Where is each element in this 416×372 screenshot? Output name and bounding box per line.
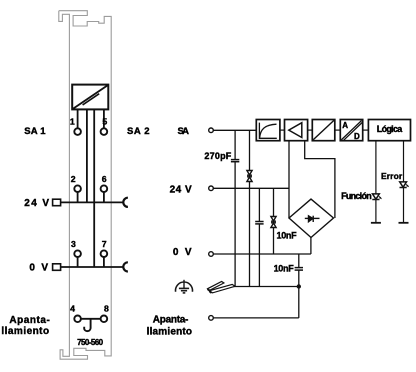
svg-text:8: 8: [104, 303, 109, 313]
svg-text:Apanta-: Apanta-: [153, 315, 189, 326]
svg-text:Error: Error: [381, 171, 403, 181]
svg-text:SA 1: SA 1: [24, 126, 46, 137]
svg-text:SA: SA: [178, 126, 190, 137]
svg-text:750-560: 750-560: [77, 338, 104, 347]
svg-text:24 V: 24 V: [170, 185, 192, 196]
svg-text:2: 2: [71, 174, 76, 184]
svg-text:270pF: 270pF: [204, 151, 231, 161]
svg-text:llamiento: llamiento: [147, 326, 192, 337]
svg-text:llamiento: llamiento: [1, 326, 49, 337]
svg-text:7: 7: [102, 239, 107, 249]
svg-text:5: 5: [102, 117, 107, 127]
svg-text:A: A: [342, 121, 348, 130]
svg-text:0 V: 0 V: [173, 247, 192, 258]
svg-text:SA 2: SA 2: [127, 126, 150, 137]
svg-text:Lógica: Lógica: [377, 124, 403, 134]
svg-text:3: 3: [71, 239, 76, 249]
svg-text:D: D: [354, 132, 360, 141]
svg-text:Función: Función: [341, 191, 372, 201]
svg-text:Apanta-: Apanta-: [9, 315, 49, 326]
svg-text:10nF: 10nF: [277, 230, 298, 240]
svg-text:6: 6: [102, 174, 107, 184]
svg-text:1: 1: [70, 117, 75, 127]
svg-text:10nF: 10nF: [274, 264, 295, 274]
svg-text:4: 4: [70, 303, 75, 313]
svg-text:0 V: 0 V: [29, 263, 48, 274]
